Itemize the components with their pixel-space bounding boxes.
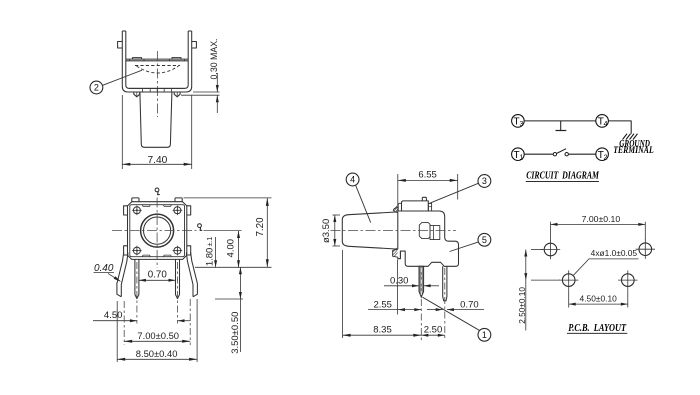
svg-text:7.20: 7.20 — [255, 217, 266, 237]
svg-text:4: 4 — [350, 175, 355, 185]
svg-text:4.50: 4.50 — [104, 310, 123, 321]
view B centre symbol top — [155, 188, 159, 192]
svg-text:8.35: 8.35 — [373, 325, 392, 336]
view C horizontal centerline — [331, 230, 457, 232]
dimension 0.30 MAX — [216, 73, 218, 92]
svg-text:0.70: 0.70 — [460, 299, 479, 310]
svg-text:7.40: 7.40 — [147, 155, 167, 166]
dimension 0.30 MAX reference lines — [193, 91, 220, 93]
PCB dimension 2.50±0.10 extension lines — [531, 249, 543, 251]
view B metal cover inner line — [130, 205, 185, 257]
svg-text:4.00: 4.00 — [226, 239, 237, 258]
svg-text:8.50±0.40: 8.50±0.40 — [136, 348, 178, 359]
balloon 4 — [346, 173, 359, 186]
view A dashed dome — [135, 65, 180, 67]
svg-text:P.C.B. LAYOUT: P.C.B. LAYOUT — [568, 323, 627, 334]
view B left bent leg — [117, 253, 128, 297]
svg-text:1: 1 — [482, 330, 487, 340]
dimension ø3.50 extension lines — [333, 214, 341, 216]
dimension 0.40 leader — [108, 273, 120, 281]
svg-text:0.30 MAX.: 0.30 MAX. — [209, 38, 219, 79]
view B bottom cover notches — [142, 255, 150, 257]
balloon 1 — [478, 328, 491, 341]
movable contact stub — [560, 121, 562, 131]
svg-text:2: 2 — [604, 154, 608, 161]
balloon 2 — [90, 81, 103, 94]
view C metal bracket — [402, 201, 429, 211]
switch contact left — [553, 153, 556, 156]
balloon 2 leader — [103, 70, 142, 85]
view C left pin centerline extension — [420, 299, 422, 340]
svg-text:7.00±0.50: 7.00±0.50 — [137, 330, 179, 341]
svg-text:4xø1.0±0.05: 4xø1.0±0.05 — [591, 249, 638, 258]
view B centre symbol right — [198, 224, 202, 228]
svg-text:0.70: 0.70 — [148, 270, 168, 281]
view B button inner circle — [144, 217, 171, 244]
PCB hole bottom-left — [562, 274, 575, 287]
view B rivet top-right — [176, 209, 178, 211]
view C right pin centerline — [444, 268, 446, 340]
view B side tabs — [124, 206, 128, 215]
view B right leg — [176, 259, 180, 298]
dimension 6.55 extension lines — [397, 174, 399, 213]
view B right leg centerline — [177, 262, 179, 324]
svg-text:2.50: 2.50 — [424, 325, 443, 336]
view A metal frame with terminals up (inverted side view) — [122, 31, 191, 92]
view C contact block — [419, 223, 430, 239]
switch lever — [557, 149, 566, 154]
balloon 3 leader — [430, 183, 479, 203]
view B rivet bottom-left — [136, 250, 138, 252]
view A left tab — [118, 42, 123, 49]
svg-text:CIRCUIT DIAGRAM: CIRCUIT DIAGRAM — [526, 171, 599, 182]
view C body outline — [398, 211, 459, 266]
view C body-left extension line — [397, 260, 399, 315]
svg-text:3: 3 — [519, 121, 523, 128]
view B vertical centerline — [156, 198, 158, 269]
switch contact right — [565, 153, 568, 156]
dimension 7.40 — [122, 163, 191, 165]
view A left contact foot — [134, 92, 140, 97]
wire T1 to switch — [524, 153, 553, 155]
view C right pin — [443, 266, 447, 301]
view C upper ground tab — [393, 207, 398, 212]
svg-text:0.30: 0.30 — [390, 276, 409, 287]
wire T3 to T4 — [524, 120, 596, 122]
svg-text:ø3.50: ø3.50 — [321, 219, 332, 243]
view A right tab — [192, 42, 197, 49]
wire switch to T2 — [568, 153, 595, 155]
view A stem pointing down — [140, 92, 172, 147]
PCB hole top-left — [544, 243, 557, 256]
dimension 7.40 extension lines — [121, 95, 123, 169]
PCB dimension 4.50±0.10 extension lines — [568, 290, 570, 308]
dimension 8.35 extension line — [342, 250, 344, 338]
wire T4 to ground — [608, 121, 631, 134]
view C bracket right tab — [428, 203, 431, 211]
view C bracket top pin — [422, 197, 426, 201]
svg-text:±.1: ±.1 — [207, 237, 214, 247]
PCB hole top-right — [639, 243, 652, 256]
view A right contact foot — [174, 92, 180, 97]
balloon 5 — [478, 233, 491, 246]
svg-text:3: 3 — [482, 176, 487, 186]
terminal T1 — [512, 148, 525, 161]
ground terminal hatch — [623, 134, 628, 140]
svg-text:3.50±0.50: 3.50±0.50 — [230, 312, 241, 354]
svg-text:4: 4 — [604, 121, 608, 128]
dimension 8.50±0.40 extension lines — [116, 301, 118, 362]
PCB hole bottom-right — [622, 274, 635, 287]
view C stem (button, pointing left) — [342, 212, 398, 249]
terminal T3 — [512, 115, 525, 128]
view A base bottom strip — [129, 87, 184, 89]
dimension 7.20 extension lines — [184, 197, 272, 199]
view C left pin (sectioned, solid) — [419, 266, 424, 297]
view B left leg centerline — [136, 262, 138, 324]
svg-text:2: 2 — [94, 83, 99, 93]
svg-text:4.50±0.10: 4.50±0.10 — [580, 295, 618, 304]
terminal T2 — [596, 148, 609, 161]
balloon 4 leader — [356, 185, 371, 222]
PCB dimension 7.00±0.10 extension lines — [550, 222, 552, 241]
balloon 3 — [478, 175, 491, 188]
svg-text:2.55: 2.55 — [373, 299, 392, 310]
view B horizontal centerline — [112, 230, 197, 232]
view B top cover notches — [142, 205, 150, 207]
balloon 1 leader — [423, 297, 480, 331]
svg-text:TERMINAL: TERMINAL — [613, 145, 654, 156]
dimension 7.00±0.50 extension lines — [123, 301, 125, 345]
view B button outer circle — [141, 214, 174, 247]
view B top tabs — [132, 198, 139, 202]
view B switch body outline (front view) — [128, 202, 187, 260]
svg-text:1.80: 1.80 — [205, 248, 216, 267]
svg-text:7.00±0.10: 7.00±0.10 — [582, 215, 621, 224]
view C lower ground tab — [393, 249, 398, 257]
view B rivet top-left — [136, 209, 138, 211]
view A base top edges — [126, 58, 188, 60]
view B rivet bottom-right — [176, 250, 178, 252]
svg-text:6.55: 6.55 — [418, 170, 437, 181]
view B right bent leg — [186, 253, 197, 297]
svg-text:5: 5 — [482, 235, 487, 245]
view A centerline — [157, 51, 159, 117]
balloon 5 leader — [450, 242, 479, 251]
terminal T4 — [596, 115, 609, 128]
svg-text:1: 1 — [519, 154, 523, 161]
view B left leg — [135, 259, 139, 298]
